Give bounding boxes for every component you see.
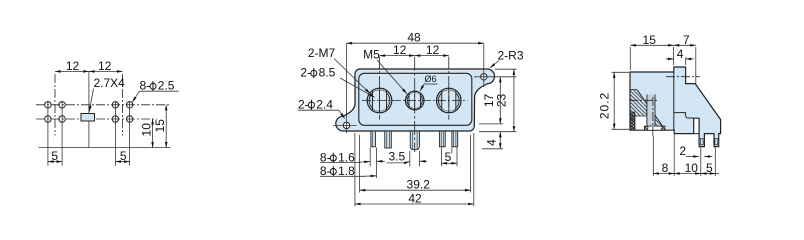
dimension 15 7 top [629, 47, 631, 70]
internal edge flange [673, 72, 675, 130]
svg-text:12: 12 [66, 59, 80, 73]
center extension line middle [88, 71, 90, 147]
dimension 10 vertical [152, 119, 154, 148]
extension line col 3 [114, 101, 116, 166]
dimension 23 [495, 68, 517, 70]
extension lines 39.2 [359, 135, 361, 193]
dimension 48 [347, 42, 484, 44]
body silhouette [630, 67, 721, 147]
svg-text:2.4: 2.4 [316, 97, 333, 111]
mounting plate outline with ears [336, 69, 495, 131]
pin channel [647, 95, 655, 127]
ear center line extension right [483, 44, 485, 88]
vertical center line right circle [448, 57, 450, 120]
svg-text:8: 8 [662, 161, 669, 175]
left hole M7/phi8.5 [367, 88, 392, 113]
svg-text:12: 12 [426, 43, 440, 57]
dimension 39.2 [360, 189, 471, 191]
ear hole bottom-left phi2.4 [343, 122, 349, 128]
center line right group vertical [122, 74, 124, 136]
horizontal center line through circles [362, 100, 468, 102]
center line ear horizontal [666, 76, 700, 78]
vertical center line left circle [379, 57, 381, 120]
svg-text:8-: 8- [140, 79, 151, 93]
svg-text:20.2: 20.2 [598, 92, 612, 119]
center line hole horizontal [629, 99, 659, 101]
svg-text:5: 5 [706, 161, 713, 175]
dimension 4 top [685, 57, 687, 65]
svg-text:12: 12 [98, 59, 112, 73]
middle pin [410, 131, 419, 150]
middle hole M5/phi6 [405, 91, 424, 110]
dimension 20.2 [612, 71, 630, 73]
svg-text:1.8: 1.8 [338, 164, 355, 178]
svg-text:42: 42 [408, 191, 422, 205]
internal step lines [674, 113, 694, 118]
svg-text:2.5: 2.5 [158, 79, 175, 93]
extension line col 4 [129, 101, 131, 166]
pin A extension lines [369, 148, 371, 167]
dimension 3.5 middle pin [409, 151, 411, 167]
extension line col 2 [61, 101, 63, 166]
pin C [439, 131, 445, 147]
hatch triangle [631, 91, 664, 130]
pin crimp marks [700, 139, 703, 145]
dimension 42 [355, 203, 474, 205]
pin extension lines bottom [652, 136, 654, 176]
svg-text:7: 7 [683, 33, 690, 47]
svg-text:23: 23 [495, 94, 509, 108]
svg-text:12: 12 [393, 43, 407, 57]
ear hole top-right phi2.4 [481, 74, 487, 80]
svg-text:2.7X4: 2.7X4 [94, 76, 126, 90]
section ledge line [630, 89, 637, 91]
pin A [371, 131, 376, 147]
dimension 12 12 [380, 55, 415, 57]
hole circles 8x phi2.5 [45, 102, 51, 108]
baseline [39, 147, 171, 149]
svg-text:2-M7: 2-M7 [308, 46, 336, 60]
svg-text:2-: 2- [298, 97, 309, 111]
dimension 15 vertical [165, 105, 167, 148]
dimension 8 10 5 bottom [653, 173, 674, 175]
svg-text:5: 5 [445, 150, 452, 164]
pin B [385, 131, 392, 148]
middle pin shoulder [644, 126, 665, 130]
center line row top [36, 104, 171, 106]
ear center line extension left [346, 44, 348, 134]
svg-text:48: 48 [407, 31, 421, 45]
extension line col 1 [47, 101, 49, 166]
white thread channel [635, 116, 647, 129]
right hole M7/phi8.5 [437, 88, 462, 113]
svg-text:4: 4 [485, 139, 499, 146]
dimension 17 [479, 123, 503, 125]
svg-text:10: 10 [685, 161, 699, 175]
rectangular hole 2.7x4 [81, 114, 95, 122]
pin D [452, 131, 458, 147]
dimension 5 right [115, 161, 129, 163]
svg-text:8.5: 8.5 [319, 66, 336, 80]
svg-text:5: 5 [120, 149, 127, 163]
dimension 2 pin [686, 156, 699, 158]
notch bottom line [694, 133, 699, 135]
center line row bottom [36, 118, 157, 120]
dense crosshatch block [630, 112, 634, 130]
svg-text:M5: M5 [363, 48, 380, 62]
svg-text:Ø6: Ø6 [425, 74, 437, 84]
front face rounded rectangle [359, 73, 472, 125]
extension lines 42 [354, 133, 356, 206]
svg-text:2-: 2- [300, 66, 311, 80]
svg-text:15: 15 [643, 33, 657, 47]
svg-text:2: 2 [679, 144, 686, 158]
svg-text:39.2: 39.2 [407, 178, 431, 192]
svg-text:10: 10 [140, 123, 154, 137]
svg-text:3.5: 3.5 [388, 150, 405, 164]
svg-text:15: 15 [153, 119, 167, 133]
dimension 4 right [482, 148, 503, 150]
svg-text:5: 5 [51, 149, 58, 163]
vertical center line middle [414, 57, 416, 153]
center line pin vertical [652, 97, 654, 136]
svg-text:4: 4 [677, 47, 684, 61]
section slope line [637, 90, 665, 130]
dimension 5 pins [441, 148, 443, 167]
dimension 5 left [48, 161, 62, 163]
svg-text:8-: 8- [320, 164, 331, 178]
svg-text:2-R3: 2-R3 [498, 49, 524, 63]
solid center segments in circles [379, 88, 381, 114]
center line left group vertical [54, 74, 56, 136]
dimension 12 12 top [55, 70, 89, 72]
